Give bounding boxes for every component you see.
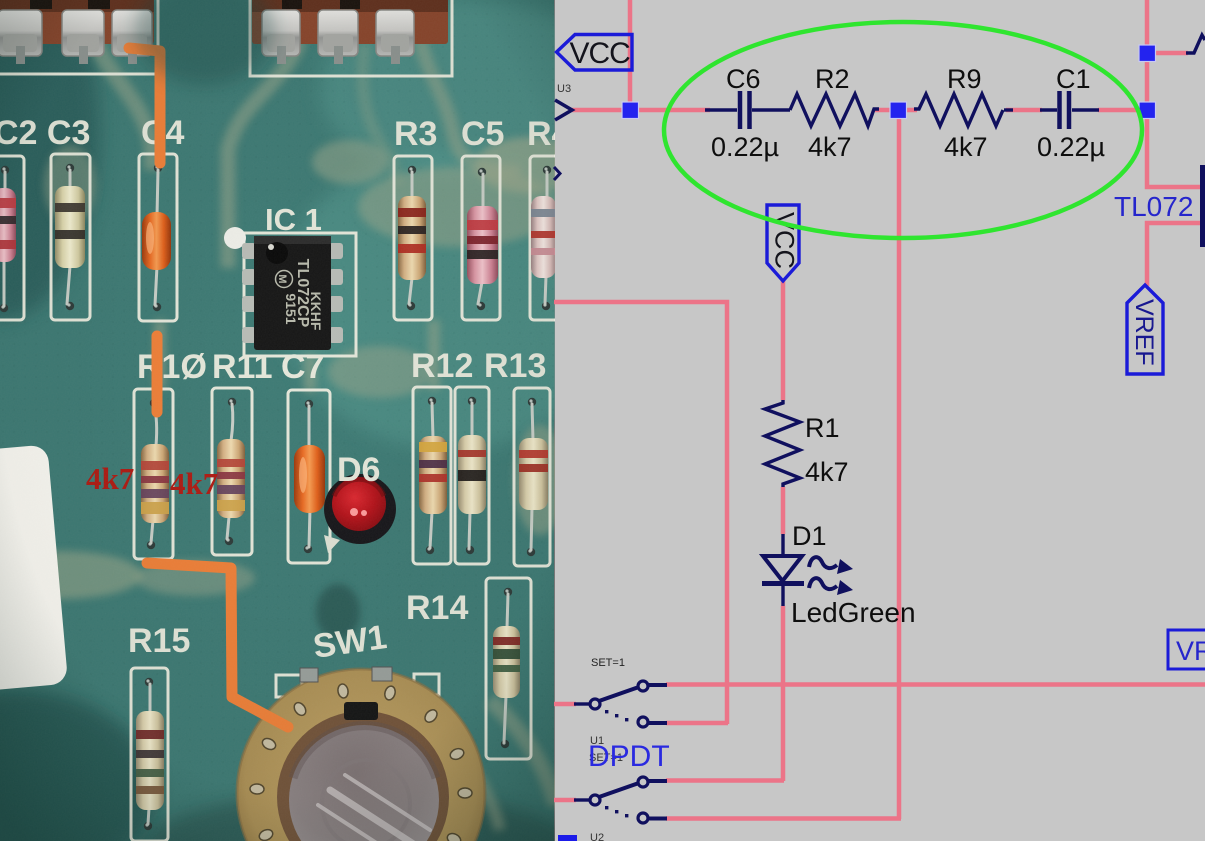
svg-text:4k7: 4k7: [944, 132, 988, 162]
svg-text:R9: R9: [947, 64, 982, 94]
svg-text:C1: C1: [1056, 64, 1091, 94]
svg-text:4k7: 4k7: [805, 457, 849, 487]
svg-text:R2: R2: [815, 64, 850, 94]
svg-text:DPDT: DPDT: [588, 740, 670, 773]
svg-text:0.22µ: 0.22µ: [1037, 132, 1105, 162]
svg-text:C6: C6: [726, 64, 761, 94]
svg-text:D1: D1: [792, 521, 827, 551]
svg-text:U2: U2: [590, 832, 604, 841]
svg-text:R1: R1: [805, 413, 840, 443]
svg-text:4k7: 4k7: [808, 132, 852, 162]
svg-text:VR: VR: [1176, 636, 1205, 666]
svg-text:VREF: VREF: [1130, 299, 1158, 366]
svg-text:0.22µ: 0.22µ: [711, 132, 779, 162]
svg-text:VCC: VCC: [570, 37, 631, 70]
svg-text:LedGreen: LedGreen: [791, 597, 916, 628]
svg-text:U3: U3: [557, 83, 571, 95]
svg-text:TL072: TL072: [1114, 191, 1193, 222]
svg-text:SET=1: SET=1: [591, 657, 625, 669]
